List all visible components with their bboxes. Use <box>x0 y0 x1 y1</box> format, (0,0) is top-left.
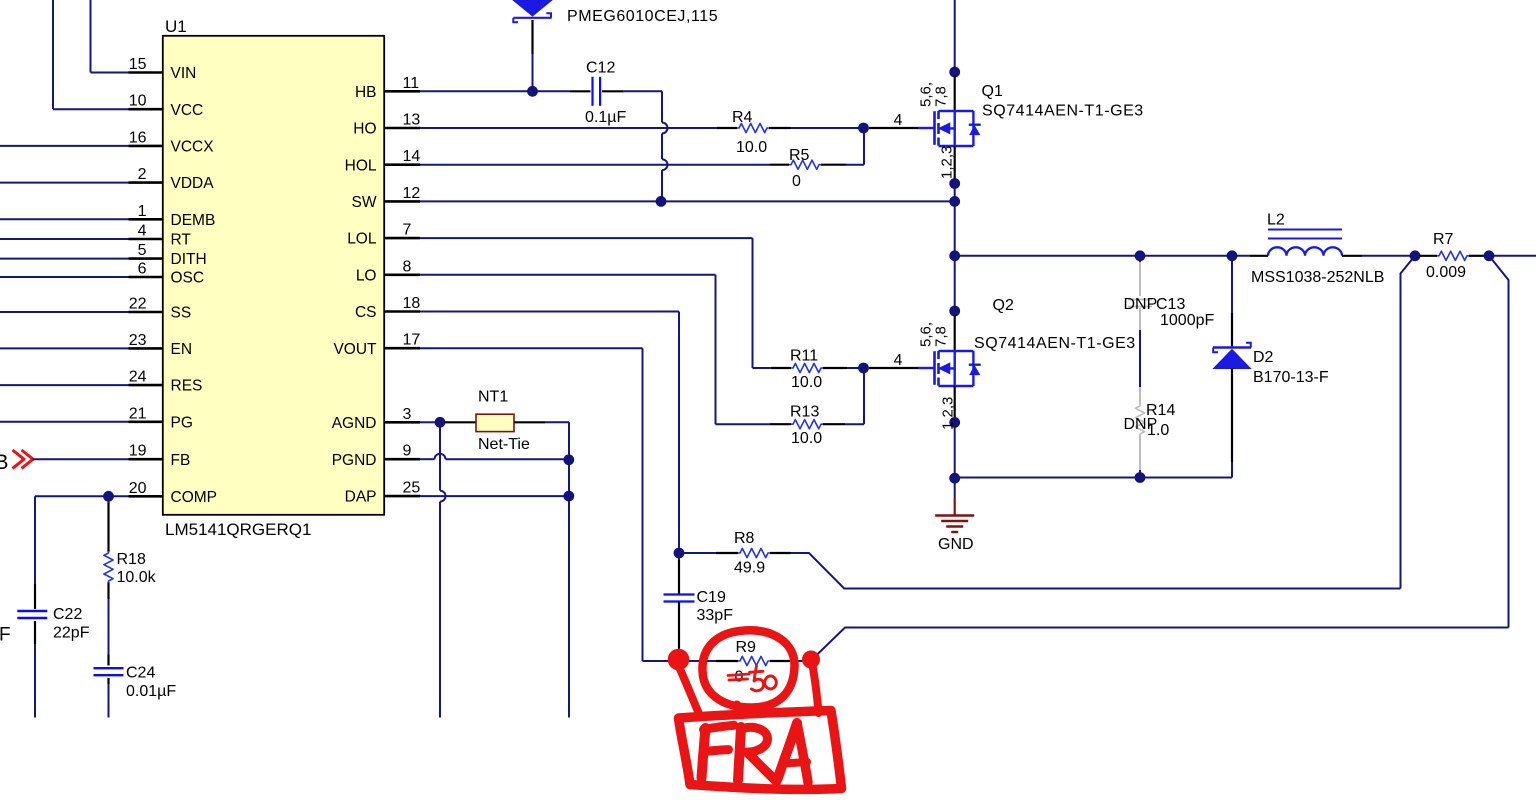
svg-text:VOUT: VOUT <box>333 341 377 358</box>
svg-text:DAP: DAP <box>345 489 377 506</box>
svg-text:D2: D2 <box>1253 349 1274 366</box>
svg-text:SW: SW <box>352 194 377 211</box>
svg-text:DITH: DITH <box>171 251 207 268</box>
svg-text:7,8: 7,8 <box>933 86 950 107</box>
svg-text:LO: LO <box>356 267 377 284</box>
svg-text:13: 13 <box>403 112 421 129</box>
svg-text:AGND: AGND <box>332 415 377 432</box>
svg-text:0.1µF: 0.1µF <box>585 109 626 126</box>
svg-text:SQ7414AEN-T1-GE3: SQ7414AEN-T1-GE3 <box>982 102 1144 119</box>
svg-text:20: 20 <box>129 480 147 497</box>
svg-text:18: 18 <box>403 295 421 312</box>
svg-text:R13: R13 <box>790 404 819 421</box>
svg-text:PMEG6010CEJ,115: PMEG6010CEJ,115 <box>567 8 718 25</box>
svg-text:PG: PG <box>171 414 193 431</box>
svg-text:LM5141QRGERQ1: LM5141QRGERQ1 <box>165 520 311 539</box>
svg-text:25: 25 <box>403 480 421 497</box>
svg-text:B: B <box>0 451 9 474</box>
svg-text:U1: U1 <box>165 17 187 36</box>
svg-text:0: 0 <box>735 669 744 686</box>
svg-text:RES: RES <box>171 378 203 395</box>
svg-text:R18: R18 <box>117 551 146 568</box>
svg-text:HO: HO <box>353 121 376 138</box>
svg-text:Net-Tie: Net-Tie <box>478 436 530 453</box>
svg-text:10.0: 10.0 <box>791 374 822 391</box>
svg-text:Q1: Q1 <box>982 83 1003 100</box>
svg-text:MSS1038-252NLB: MSS1038-252NLB <box>1251 269 1384 286</box>
svg-text:7,8: 7,8 <box>933 326 950 347</box>
svg-text:1.0: 1.0 <box>1147 422 1169 439</box>
svg-text:6: 6 <box>138 261 147 278</box>
svg-text:HOL: HOL <box>345 157 377 174</box>
svg-text:Q2: Q2 <box>993 297 1014 314</box>
svg-text:10.0k: 10.0k <box>117 569 157 586</box>
svg-text:14: 14 <box>403 148 421 165</box>
svg-text:SQ7414AEN-T1-GE3: SQ7414AEN-T1-GE3 <box>974 335 1136 352</box>
svg-text:PGND: PGND <box>332 452 377 469</box>
svg-text:33pF: 33pF <box>697 607 734 624</box>
svg-text:NT1: NT1 <box>478 389 508 406</box>
svg-text:R9: R9 <box>736 639 757 656</box>
svg-text:VDDA: VDDA <box>171 175 215 192</box>
svg-text:B170-13-F: B170-13-F <box>1253 369 1329 386</box>
svg-text:R11: R11 <box>790 348 818 365</box>
svg-text:5: 5 <box>138 242 147 259</box>
svg-text:1,2,3: 1,2,3 <box>940 397 957 430</box>
svg-text:C24: C24 <box>126 665 155 682</box>
svg-text:CS: CS <box>355 304 377 321</box>
svg-text:11: 11 <box>403 75 420 92</box>
svg-text:R4: R4 <box>732 109 753 126</box>
svg-text:C22: C22 <box>53 606 82 623</box>
svg-text:HB: HB <box>355 84 377 101</box>
svg-text:R5: R5 <box>789 147 810 164</box>
svg-text:C13: C13 <box>1156 296 1185 313</box>
svg-text:4: 4 <box>138 223 147 240</box>
svg-text:F: F <box>0 625 11 646</box>
svg-text:12: 12 <box>403 185 421 202</box>
svg-text:EN: EN <box>171 341 193 358</box>
svg-text:19: 19 <box>129 443 147 460</box>
svg-text:17: 17 <box>403 332 421 349</box>
svg-text:RT: RT <box>171 232 192 249</box>
svg-text:LOL: LOL <box>347 231 377 248</box>
svg-text:4: 4 <box>894 352 903 369</box>
svg-text:15: 15 <box>129 56 147 73</box>
svg-text:COMP: COMP <box>171 489 218 506</box>
svg-text:49.9: 49.9 <box>734 560 765 577</box>
svg-text:0: 0 <box>792 173 801 190</box>
svg-text:VCCX: VCCX <box>171 139 215 156</box>
svg-text:C12: C12 <box>586 60 615 77</box>
svg-text:21: 21 <box>129 405 147 422</box>
svg-text:1: 1 <box>138 203 147 220</box>
svg-text:VIN: VIN <box>171 65 197 82</box>
svg-text:23: 23 <box>129 332 147 349</box>
svg-text:22: 22 <box>129 296 147 313</box>
svg-text:10.0: 10.0 <box>736 139 767 156</box>
svg-text:1,2,3: 1,2,3 <box>939 146 956 179</box>
svg-text:7: 7 <box>403 222 412 239</box>
svg-text:24: 24 <box>129 369 147 386</box>
svg-text:2: 2 <box>138 166 147 183</box>
svg-text:10.0: 10.0 <box>791 430 822 447</box>
svg-text:GND: GND <box>938 536 974 553</box>
svg-text:10: 10 <box>129 93 147 110</box>
svg-text:0.01µF: 0.01µF <box>126 683 176 700</box>
svg-text:22pF: 22pF <box>53 625 90 642</box>
svg-text:FB: FB <box>171 452 191 469</box>
svg-text:4: 4 <box>894 112 903 129</box>
svg-text:0.009: 0.009 <box>1426 264 1466 281</box>
svg-text:16: 16 <box>129 129 147 146</box>
svg-text:3: 3 <box>403 406 412 423</box>
svg-text:9: 9 <box>403 443 412 460</box>
svg-text:DEMB: DEMB <box>171 212 216 229</box>
svg-text:8: 8 <box>403 258 412 275</box>
svg-text:R7: R7 <box>1433 231 1454 248</box>
svg-text:OSC: OSC <box>171 270 205 287</box>
svg-text:SS: SS <box>171 305 192 322</box>
svg-text:L2: L2 <box>1267 212 1285 229</box>
svg-text:C19: C19 <box>697 589 726 606</box>
svg-text:DNP: DNP <box>1124 296 1158 313</box>
svg-text:1000pF: 1000pF <box>1160 312 1214 329</box>
svg-text:VCC: VCC <box>171 102 204 119</box>
svg-text:R8: R8 <box>734 530 755 547</box>
